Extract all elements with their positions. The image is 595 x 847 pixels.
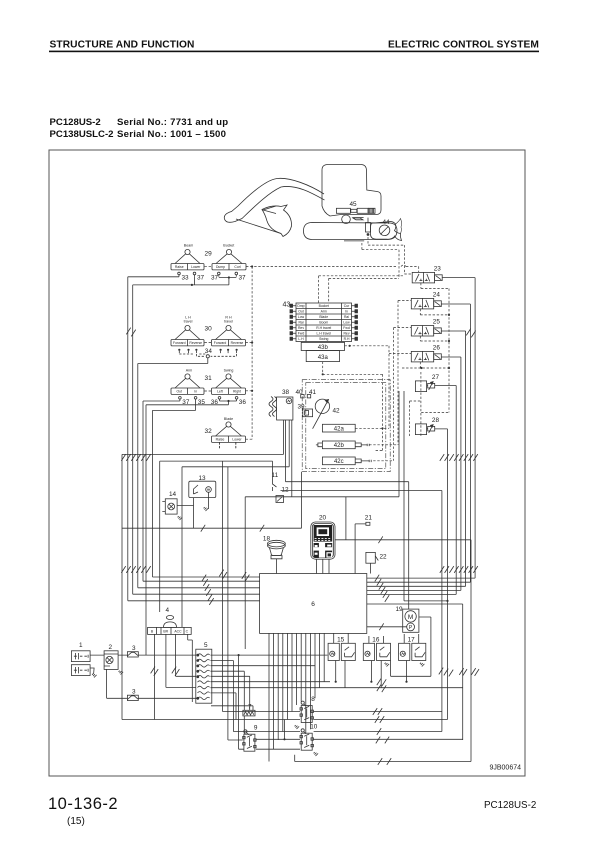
svg-text:Right: Right [233,390,241,394]
svg-text:37: 37 [239,275,247,282]
svg-text:24: 24 [433,292,441,299]
wire fusebox bottom out [211,706,253,711]
svg-text:Arm: Arm [186,369,193,373]
excavator machine outline [224,165,397,240]
svg-text:Rai: Rai [298,321,303,325]
wire cluster to motor feed [286,420,409,609]
wire swing pins to left bus [146,401,237,655]
wire bus x238 drop [238,655,240,749]
svg-text:9: 9 [254,725,258,732]
pilot lever 30 R.H travel [212,316,246,346]
pins (dots) under lever 30 [178,349,238,351]
pilot lever 31 Swing [212,369,246,395]
junction dots pilot vertical [251,342,253,392]
svg-text:Cur: Cur [344,304,350,308]
wire long horizontal C [122,420,284,454]
svg-text:16: 16 [372,637,380,644]
svg-text:Rai: Rai [344,315,349,319]
dashed valve26 pilot drain [402,362,449,368]
svg-text:R.H: R.H [344,337,350,341]
svg-text:2: 2 [109,644,113,651]
pump / swing alarm 44 [352,218,401,241]
dashed corner to table43 col2 [329,278,399,303]
wire bottom bus F [295,755,471,762]
wire switch22 drop [370,563,372,573]
svg-text:Rev: Rev [298,326,304,330]
svg-text:PC138USLC-2: PC138USLC-2 [50,129,114,140]
wire motor19 feed [404,391,448,601]
svg-text:Fwd: Fwd [343,326,350,330]
svg-text:22: 22 [380,554,388,561]
svg-text:23: 23 [434,266,442,273]
svg-text:30: 30 [205,326,213,333]
governor motor 19 [396,606,419,632]
relay 10 [300,724,318,756]
svg-text:Reverse: Reverse [189,341,202,345]
dashed link between lever30 boxes [205,342,212,344]
svg-text:Raise: Raise [175,265,184,269]
svg-text:Reverse: Reverse [231,341,244,345]
key switch 4 [148,616,192,635]
svg-text:45: 45 [350,201,358,208]
svg-text:9JB00674: 9JB00674 [489,765,521,772]
wire relay2 to fuse3 lower [107,669,198,698]
svg-text:17: 17 [408,637,416,644]
dashed blade stubs [220,442,236,448]
svg-text:15: 15 [337,637,345,644]
dashed link between lever31 boxes [205,390,212,392]
wire valve27 output [367,386,456,595]
svg-text:Out: Out [298,310,304,314]
wire diode14 link [177,505,193,507]
ground for relay 13 [204,507,209,511]
junction dot motor feed [446,600,448,602]
relay 16 [363,637,390,661]
wire fusebox row8 out [211,693,237,720]
pins under lever 31 [179,397,238,402]
svg-text:M: M [408,614,413,621]
svg-text:10: 10 [310,724,318,731]
svg-text:PC128US-2: PC128US-2 [484,800,536,811]
relay 17 [399,637,426,661]
wire arm pin37 to left bus [143,401,260,581]
wire relay13 drop [193,498,195,529]
pilot lever 31 Arm [171,369,204,395]
wire arm pin35 to left bus [153,401,260,577]
junction dots sensor dashes [322,345,384,430]
svg-text:Rev: Rev [343,332,349,336]
svg-text:29: 29 [205,251,213,258]
crossing marks right bundle lower [440,566,478,573]
relay 13 [189,475,216,509]
wire fusebox row5 out [211,676,250,710]
wire valve25 output [367,331,466,586]
dashed link between lever29 boxes [205,266,212,268]
junction dots pilot collector [420,314,450,369]
dashed valve26 to 42a [355,346,411,429]
svg-text:42b: 42b [334,443,345,449]
dash-dot enclosure around pump cluster [306,383,386,469]
solenoid valve 24 [411,292,441,309]
crossing marks motor P wire [379,623,383,630]
solenoid valve 28 [415,417,439,435]
wire lever29 beam pin33 to left bus [128,277,260,601]
svg-text:Raise: Raise [216,438,225,442]
ground for diode 14 [178,516,183,520]
dashed valve23 pilot drain [421,283,449,289]
crossing marks right bundle upper [440,454,478,461]
wire keyswitch terminals [154,634,195,719]
wire valve28 output [435,429,448,720]
relay 15 [328,637,355,661]
dashed valve24 to 42b [369,301,411,445]
svg-text:6: 6 [311,601,315,608]
svg-text:L.H travel: L.H travel [316,332,331,336]
pressure sensor 42c [322,457,371,465]
wire fusebox row4 out [211,671,245,734]
wire valve26 output [367,357,461,590]
diode unit 14 [162,491,177,514]
wire long horizontal E [182,420,289,627]
svg-text:Bucket: Bucket [319,304,329,308]
solenoid valve 26 [411,345,441,362]
svg-text:R.H travel: R.H travel [316,326,331,330]
pilot lever 32 Blade [212,417,246,442]
crossing marks centre verticals [219,570,249,582]
crossing marks right bundle y672 [439,668,479,677]
crossing marks box6 right horizontals [375,575,389,602]
pins under lever 29 [178,272,238,277]
svg-text:Out: Out [177,390,183,394]
wire battery ground stub [90,668,94,674]
wire under machine [344,240,364,242]
svg-text:BR: BR [163,630,168,634]
svg-text:In: In [345,310,348,314]
svg-text:32: 32 [205,428,213,435]
battery relay 2 [104,644,118,669]
header rule [49,51,539,53]
wire controller6 bottom harness [269,633,324,761]
crossing marks box6 left horizontals [202,575,214,605]
crossing marks keyswitch verticals [151,667,180,676]
svg-text:4: 4 [166,607,170,614]
wire bottom bus B [122,719,448,721]
dashed 43a to 42 cluster [323,362,383,451]
svg-text:37: 37 [197,275,205,282]
pressure sensor 42a [322,424,355,432]
svg-text:ELECTRIC CONTROL SYSTEM: ELECTRIC CONTROL SYSTEM [388,40,539,51]
svg-text:12: 12 [282,487,290,494]
svg-text:26: 26 [433,345,441,352]
svg-text:34: 34 [205,348,213,355]
wire right bundle line8 [441,491,443,732]
dashed pilot bucket to valve23 [246,265,419,272]
svg-text:Dump: Dump [216,265,225,269]
relay 8 [295,696,316,729]
wire fusebox row1 bus [211,654,328,656]
ground relay 17 [420,663,425,667]
wire monitor20 drops [317,559,330,573]
svg-text:Left: Left [217,390,223,394]
svg-text:5: 5 [204,642,208,649]
variable pump 42 [313,399,340,429]
svg-text:27: 27 [432,374,440,381]
crossing marks left pair y330 [126,328,135,337]
crossing marks right verticals y333 [466,329,475,338]
wire motor19 P link [367,626,407,628]
wire fusebox row6 bus [211,681,331,683]
svg-text:Beam: Beam [184,244,193,248]
battery 1 [71,642,90,676]
svg-text:10-136-2: 10-136-2 [48,795,118,813]
wire bottom bus E [239,748,300,750]
svg-text:travel: travel [224,320,233,324]
svg-text:Dmp: Dmp [297,304,304,308]
svg-text:Blade: Blade [319,315,328,319]
svg-text:36: 36 [239,399,247,406]
wire long horizontal B monitor [335,540,471,762]
diagram frame [49,150,525,776]
crossing marks left bundle lower [121,566,150,573]
wire long horizontal A [122,454,302,719]
pilot lever 29 Beam [171,244,204,270]
dashed pilot vertical to levers [246,267,253,440]
monitor panel 20 [311,515,335,560]
dashed valve24 pilot drain [420,309,449,315]
wire connector21 drop [355,524,366,574]
svg-text:28: 28 [432,417,440,424]
svg-text:25: 25 [433,319,441,326]
connector 43a [306,351,339,362]
fuse box 5 [196,642,212,703]
ground battery [92,674,97,678]
controller 6 [260,574,367,634]
svg-text:STRUCTURE AND FUNCTION: STRUCTURE AND FUNCTION [50,40,195,51]
crossing marks left bundle upper [121,454,150,461]
svg-text:37: 37 [211,275,219,282]
node circle 34 [206,355,209,358]
engine/pump unit 38 [269,389,293,420]
pilot lever 29 Bucket [212,244,246,270]
svg-text:Arm: Arm [321,310,327,314]
svg-text:3: 3 [132,645,136,652]
dashed corner to table43 col1 [319,276,405,303]
dashed from item44 down [368,237,412,274]
junction dot pilot [251,265,253,267]
svg-text:ACC: ACC [174,630,182,634]
svg-text:43a: 43a [318,355,329,361]
wire fusebox row2 out [211,661,234,732]
svg-text:42: 42 [333,408,341,415]
svg-text:42a: 42a [334,427,345,433]
wire bus687 [211,687,463,689]
svg-text:Forward: Forward [214,341,227,345]
dashed valve25 to 42c [373,328,411,461]
wire relay9 branch up [284,720,286,740]
solenoid valve 23 [412,266,442,283]
wire bottom bus A [223,461,442,711]
crossing marks bottom buses [373,678,391,765]
wire lever29 pins to second bus [133,277,260,594]
wire valve24 output [367,304,471,582]
svg-text:41: 41 [309,389,317,396]
solenoid assembly 45 [336,201,375,224]
junction dot relay9-10 [283,738,285,740]
svg-text:Swing: Swing [224,369,234,373]
svg-text:Bucket: Bucket [223,244,234,248]
svg-text:PC128US-2: PC128US-2 [50,117,101,128]
svg-text:Fwd: Fwd [298,332,305,336]
wire battery to relay2 to fuse3 [90,654,196,656]
ground relay 2 [119,671,124,675]
svg-text:19: 19 [396,606,404,613]
svg-text:Forward: Forward [173,341,186,345]
svg-text:3: 3 [132,689,136,696]
svg-text:Low: Low [343,321,350,325]
wire relay15-17 bottom drops [336,661,407,688]
wire valve23 output [367,278,475,578]
relay 9 [243,725,258,752]
junction dots lever31 [227,400,229,402]
svg-text:14: 14 [169,491,177,498]
pilot lever 30 L.H travel [171,316,204,346]
wire bottom bus D [228,467,463,740]
wire item12 left link [245,391,442,649]
svg-text:L.H: L.H [298,337,304,341]
wire fusebox row3 bus [211,665,316,667]
dashed 43b to sensor bus [345,345,390,347]
svg-text:Lower: Lower [232,438,242,442]
svg-text:Swing: Swing [319,337,328,341]
solenoid valve 25 [411,319,441,336]
wire horn18 drop [275,559,277,574]
wire travel node34 to left bus [138,358,260,588]
svg-text:Boom: Boom [319,321,328,325]
solenoid valve 27 [415,374,439,392]
dashed pilot collector vertical [410,289,449,437]
svg-text:1: 1 [79,642,83,649]
dashed stubs under lever 32 [220,442,236,448]
connector table 43 [283,302,358,342]
svg-text:Blade: Blade [224,417,233,421]
svg-text:Lower: Lower [191,265,201,269]
pressure sensor 42b [316,441,369,449]
svg-text:Low: Low [298,315,305,319]
svg-text:21: 21 [365,515,373,522]
junction dots lever29 [191,276,230,286]
svg-text:38: 38 [282,389,290,396]
wire item11 drop [272,461,274,478]
horn 18 [263,536,285,559]
junction dots relay drops [335,681,408,683]
crossing marks long horizontals [201,525,383,543]
svg-text:Serial No.: 1001 – 1500: Serial No.: 1001 – 1500 [117,129,226,140]
svg-text:33: 33 [182,275,190,282]
wire relay15-17 top stubs [334,633,419,643]
svg-text:31: 31 [205,375,213,382]
svg-text:(15): (15) [67,816,85,827]
svg-text:In: In [194,390,197,394]
svg-text:42c: 42c [334,459,344,465]
svg-text:travel: travel [184,320,193,324]
svg-text:39: 39 [298,404,306,411]
svg-text:Curl: Curl [234,265,240,269]
dashed valve25 pilot drain [420,336,449,341]
junction dot battery bus [238,654,240,656]
svg-text:Serial No.: 7731 and up: Serial No.: 7731 and up [117,117,228,128]
svg-text:43: 43 [283,302,291,309]
dashed collector under lever 30 [179,351,236,356]
connector 43b [301,342,344,351]
wire bottom bus C [233,731,442,733]
wire right bundle line7 [367,604,463,740]
wire motor19 right loop [391,617,431,676]
svg-text:20: 20 [319,515,327,522]
ground relay 16 [385,663,390,667]
wire long horizontal D [160,461,273,612]
dashed from item44 second [362,243,399,278]
